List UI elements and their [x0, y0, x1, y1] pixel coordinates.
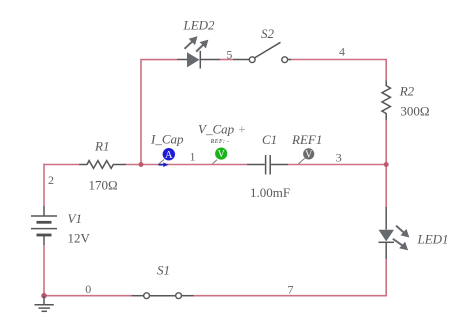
svg-text:4: 4: [339, 45, 345, 59]
svg-text:R2: R2: [399, 84, 415, 99]
svg-text:1.00mF: 1.00mF: [250, 185, 290, 200]
svg-text:2: 2: [48, 173, 54, 187]
svg-text:I_Cap: I_Cap: [150, 132, 184, 147]
svg-text:300Ω: 300Ω: [400, 104, 429, 119]
svg-text:S2: S2: [261, 26, 275, 41]
svg-text:V: V: [218, 149, 226, 160]
svg-text:0: 0: [85, 282, 91, 296]
svg-text:12V: 12V: [68, 231, 91, 246]
svg-text:REF1: REF1: [291, 132, 322, 147]
svg-text:S1: S1: [157, 263, 170, 278]
svg-text:REF: -: REF: -: [210, 139, 230, 145]
svg-text:170Ω: 170Ω: [89, 178, 118, 193]
svg-text:V1: V1: [68, 211, 82, 226]
svg-text:7: 7: [288, 283, 294, 297]
svg-text:V_Cap +: V_Cap +: [198, 122, 246, 137]
svg-text:1: 1: [190, 150, 196, 164]
svg-text:3: 3: [336, 151, 342, 165]
svg-text:A: A: [165, 150, 173, 161]
svg-text:LED1: LED1: [417, 232, 449, 247]
svg-text:V: V: [305, 149, 313, 160]
svg-text:C1: C1: [262, 132, 277, 147]
svg-text:R1: R1: [94, 139, 109, 154]
svg-text:5: 5: [226, 48, 232, 62]
svg-text:LED2: LED2: [183, 18, 216, 33]
